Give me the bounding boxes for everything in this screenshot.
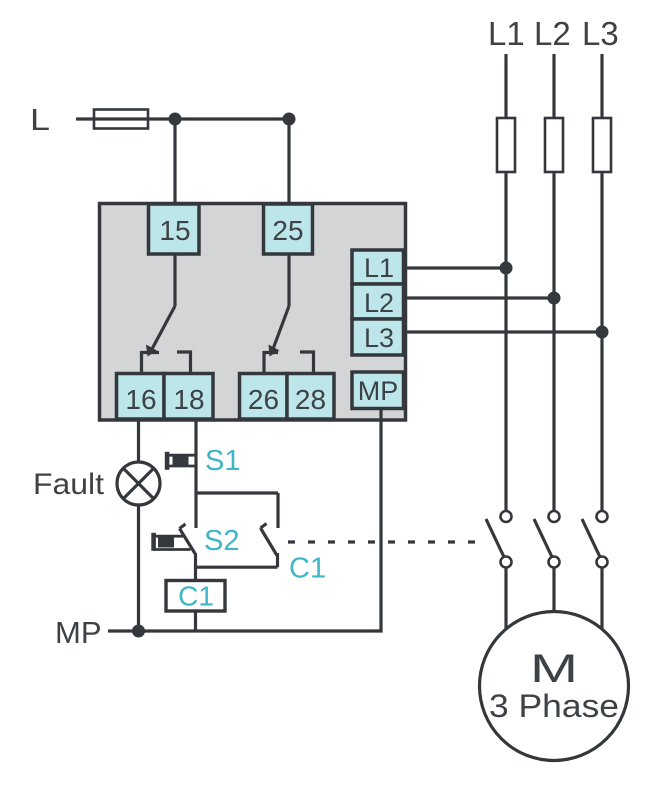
dashed mechanical link C1 <box>288 540 487 543</box>
fuse F0 <box>94 110 148 129</box>
phase L1 wire to contactor <box>504 172 507 511</box>
svg-text:3 Phase: 3 Phase <box>489 688 619 724</box>
svg-text:M: M <box>530 647 578 691</box>
phase L1 label <box>488 15 525 52</box>
label C1 of link <box>289 553 326 585</box>
svg-text:S2: S2 <box>204 525 239 557</box>
wire pole2 to motor <box>552 567 555 612</box>
wire fuse to node B <box>148 117 289 120</box>
relay contact K1 fixed contact 16 <box>142 353 160 375</box>
svg-text:Fault: Fault <box>33 468 105 501</box>
pushbutton S2 actuator <box>151 533 190 551</box>
svg-text:L3: L3 <box>364 323 394 353</box>
svg-text:18: 18 <box>173 384 204 415</box>
contactor C1 pole 3 <box>582 511 608 568</box>
junction on L3 <box>596 326 609 339</box>
fuse F2 <box>545 118 563 172</box>
terminal L2 <box>352 284 404 319</box>
junction on L2 <box>548 292 561 305</box>
relay contact K2 blade <box>269 306 290 357</box>
fault lamp H1 <box>117 462 160 505</box>
label S2 <box>204 525 239 557</box>
wire S1 to S2 <box>194 493 197 528</box>
terminal 15 <box>149 204 200 254</box>
wire fault lamp to MP rail <box>137 505 140 631</box>
contactor C1 pole 2 <box>534 511 560 568</box>
svg-text:C1: C1 <box>178 581 214 612</box>
relay contact K2 fixed contact 26 <box>264 353 278 375</box>
terminal 26 <box>240 374 288 420</box>
phase L2 wire to contactor <box>552 172 555 511</box>
phase L2 wire upper <box>552 54 555 118</box>
relay contact K1 blade <box>146 306 175 357</box>
label Fault <box>33 468 105 501</box>
phase L3 wire upper <box>600 54 603 118</box>
wire node B to terminal 25 <box>287 119 290 205</box>
svg-text:L1: L1 <box>364 253 394 283</box>
terminal 28 <box>287 374 334 420</box>
terminal L1 <box>352 250 404 284</box>
relay contact K2 pole wire <box>287 253 290 306</box>
contactor C1 pole 1 <box>486 511 512 568</box>
svg-text:L2: L2 <box>534 15 571 52</box>
junction on MP rail <box>132 625 145 638</box>
node L label <box>30 102 50 137</box>
fuse F3 <box>593 118 611 172</box>
svg-text:26: 26 <box>248 384 279 415</box>
wire 16 to fault lamp <box>137 419 140 462</box>
phase L1 wire upper <box>504 54 507 118</box>
label MP <box>55 615 102 650</box>
svg-text:MP: MP <box>358 376 399 406</box>
svg-text:L: L <box>30 102 50 137</box>
motor M1 <box>480 612 629 761</box>
svg-text:25: 25 <box>272 215 303 246</box>
relay contact K1 fixed contact 18 <box>177 352 191 374</box>
wire L2 terminal to phase L2 <box>403 296 554 299</box>
coil C1 <box>166 581 225 612</box>
terminal 18 <box>164 374 213 420</box>
phase L3 wire to contactor <box>600 172 603 511</box>
wire L3 terminal to phase L3 <box>403 330 602 333</box>
phase L3 label <box>582 15 619 52</box>
wire 18 to S1 <box>194 419 197 493</box>
relay contact K2 fixed contact 28 <box>300 352 314 374</box>
svg-text:S1: S1 <box>205 445 240 477</box>
terminal 16 <box>117 374 165 420</box>
aux contact C1 blade <box>261 524 278 556</box>
wire branch bottom rail <box>196 566 278 569</box>
wire aux contact to bottom rail <box>276 553 279 567</box>
node junction B <box>283 113 296 126</box>
terminal 25 <box>264 204 313 254</box>
terminal L3 <box>352 319 404 355</box>
wire branch top rail <box>196 491 278 494</box>
svg-text:L1: L1 <box>488 15 525 52</box>
pushbutton S2 contact <box>180 524 196 554</box>
label S1 <box>205 445 240 477</box>
terminal MP <box>352 372 404 409</box>
wire pole1 to motor <box>504 567 507 629</box>
wire S2 to coil <box>194 553 197 580</box>
svg-text:L3: L3 <box>582 15 619 52</box>
phase L2 label <box>534 15 571 52</box>
junction on L1 <box>500 262 513 275</box>
relay U1 body <box>100 204 406 421</box>
svg-text:28: 28 <box>295 384 326 415</box>
fuse F1 <box>497 118 515 172</box>
wire pole3 to motor <box>600 567 603 629</box>
svg-text:MP: MP <box>55 615 102 650</box>
relay contact K1 pole wire <box>173 253 176 306</box>
svg-text:15: 15 <box>159 215 190 246</box>
wire right branch down <box>276 493 279 528</box>
wire coil to MP rail <box>194 610 197 631</box>
node junction A <box>169 113 182 126</box>
pushbutton S1 actuator <box>165 452 196 470</box>
MP rail wire <box>108 408 381 631</box>
svg-text:L2: L2 <box>364 288 394 318</box>
wire node A to terminal 15 <box>173 119 176 205</box>
wire L1 terminal to phase L1 <box>403 266 506 269</box>
svg-text:C1: C1 <box>289 553 326 585</box>
wire L to fuse <box>76 117 94 120</box>
svg-text:16: 16 <box>125 384 156 415</box>
